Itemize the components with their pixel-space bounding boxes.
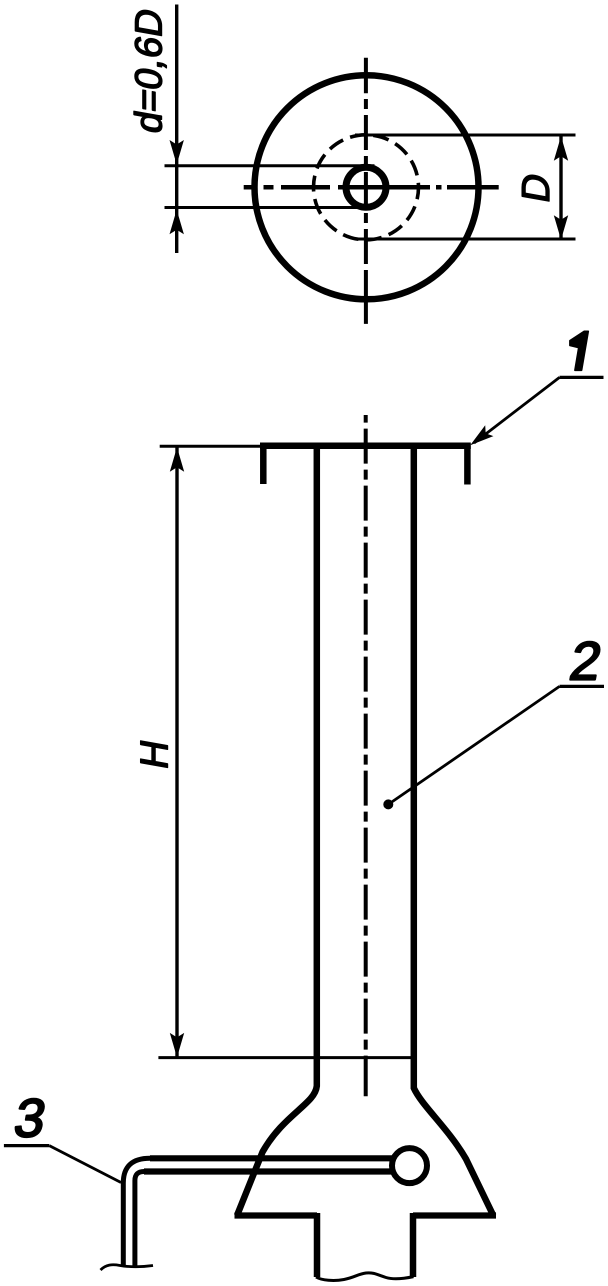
- dimension line d: [175, 5, 178, 254]
- flange right end: [464, 446, 471, 485]
- tube left wall and bell left outline: [237, 443, 317, 1216]
- label d=0,6D: [128, 5, 171, 136]
- extension line D bottom: [355, 238, 576, 241]
- bell right shoulder: [413, 1212, 496, 1218]
- side pipe outer elbow and vertical: [123, 1158, 150, 1266]
- extension line d top: [165, 164, 375, 167]
- label 2 text: [566, 631, 607, 692]
- H dimension line: [175, 447, 178, 1057]
- pipe hole circle: [392, 1148, 427, 1183]
- flange left end: [260, 446, 267, 484]
- svg-text:D: D: [514, 170, 558, 206]
- label 1 text: [570, 331, 588, 370]
- arrow H bottom (points down): [170, 1033, 184, 1058]
- column left wall: [314, 1213, 321, 1277]
- side pipe inner line horizontal (bottom): [144, 1168, 392, 1174]
- svg-text:H: H: [133, 736, 177, 772]
- top view horizontal centerline: [244, 185, 499, 190]
- arrow d lower (points up): [170, 210, 184, 235]
- pipe bottom wavy break line: [101, 1265, 154, 1270]
- bell left shoulder: [235, 1212, 318, 1218]
- top view small hole circle (diameter d): [346, 167, 386, 207]
- label 2 underline: [560, 685, 605, 688]
- label 1 underline: [560, 376, 604, 379]
- label 1 leader arrow: [470, 425, 493, 445]
- top view dashed circle (diameter D): [314, 135, 419, 240]
- arrow D top (points up): [554, 136, 568, 161]
- top view vertical centerline: [364, 58, 368, 324]
- side pipe inner elbow and vertical: [135, 1172, 144, 1267]
- extension line d bottom: [165, 206, 375, 209]
- label 3 text: [10, 1088, 51, 1149]
- front view centerline: [364, 415, 368, 1096]
- svg-text:2: 2: [566, 631, 607, 692]
- H bottom extension line: [158, 1056, 416, 1059]
- svg-text:3: 3: [10, 1088, 51, 1149]
- arrow H top (points up): [170, 447, 184, 472]
- label 3 underline: [4, 1144, 49, 1147]
- label 1 leader line: [474, 377, 560, 443]
- label D: [514, 170, 558, 206]
- top view outer circle: [255, 75, 479, 299]
- column right wall: [410, 1213, 417, 1277]
- label 3 leader line: [49, 1146, 121, 1183]
- label H: [133, 736, 177, 772]
- dimension line D: [559, 136, 562, 240]
- extension line D top: [355, 134, 576, 137]
- flange top line: [260, 443, 471, 450]
- arrow d upper (points down): [170, 140, 184, 165]
- svg-text:d=0,6D: d=0,6D: [128, 5, 171, 136]
- column bottom wavy break line: [316, 1273, 414, 1281]
- arrow D bottom (points down): [554, 215, 568, 240]
- label 2 leader dot: [383, 799, 393, 809]
- tube right wall and bell right outline: [414, 443, 494, 1216]
- front view thin extension line top (H): [160, 445, 263, 448]
- side pipe outer line horizontal (top): [150, 1155, 392, 1161]
- label 2 leader line: [388, 686, 559, 804]
